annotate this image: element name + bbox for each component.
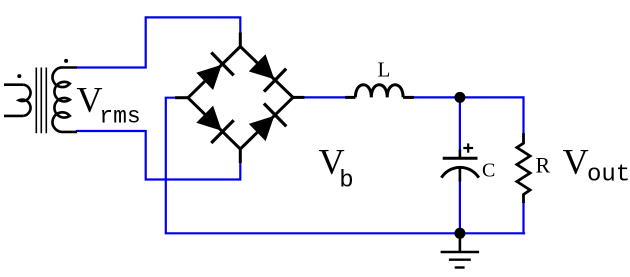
svg-text:V: V (563, 142, 589, 182)
svg-text:C: C (482, 160, 495, 182)
svg-text:L: L (378, 58, 391, 82)
svg-text:b: b (339, 168, 353, 195)
svg-text:rms: rms (99, 103, 140, 129)
svg-text:R: R (536, 152, 551, 177)
svg-text:out: out (587, 162, 630, 189)
